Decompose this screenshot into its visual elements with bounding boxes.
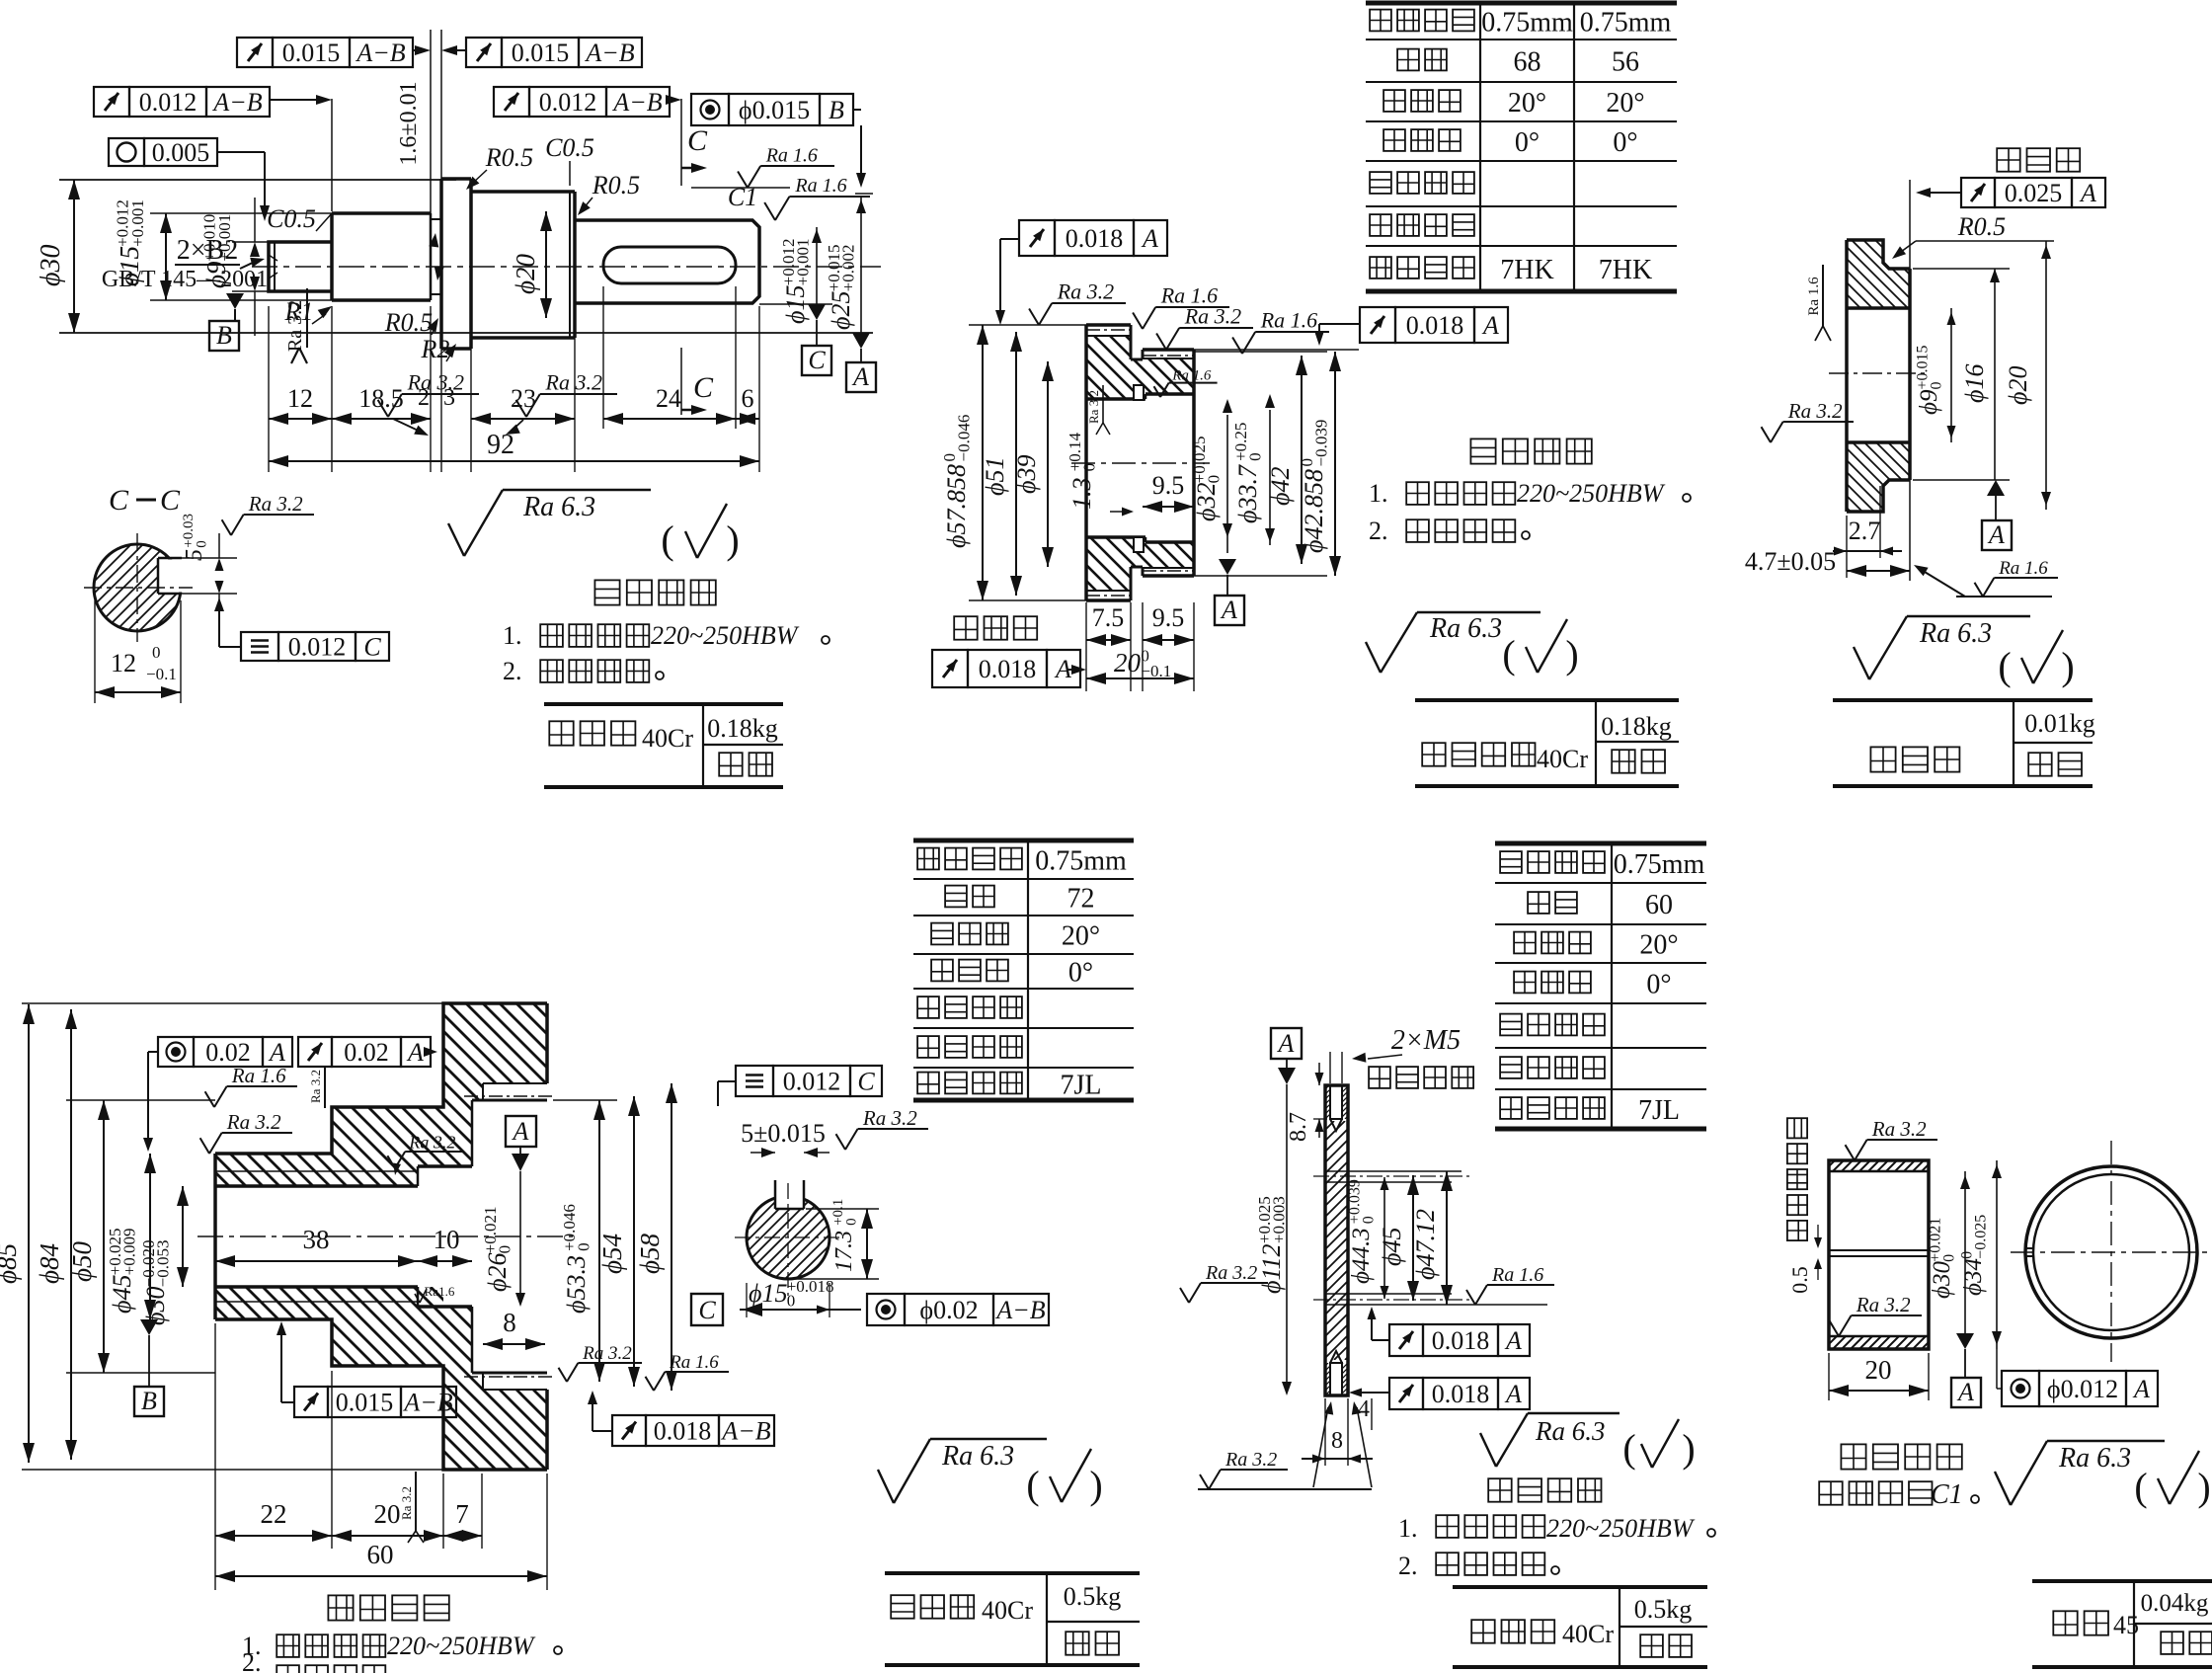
svg-text:7.5: 7.5 [1092,603,1125,632]
svg-text:0.015: 0.015 [336,1389,394,1417]
svg-text:0.18kg: 0.18kg [1601,712,1672,741]
svg-text:Ra 3.2: Ra 3.2 [1787,399,1843,423]
svg-text:A−B: A−B [584,39,634,67]
svg-text:0: 0 [575,1242,593,1251]
svg-text:ϕ53.3: ϕ53.3 [562,1255,591,1314]
svg-text:C0.5: C0.5 [267,204,316,233]
svg-text:ϕ51: ϕ51 [981,457,1009,496]
svg-text:Ra 3.2: Ra 3.2 [1871,1117,1927,1141]
svg-text:): ) [1565,632,1578,677]
svg-text:20°: 20° [1606,88,1644,119]
svg-text:1.6±0.01: 1.6±0.01 [396,81,422,165]
svg-text:4.7±0.05: 4.7±0.05 [1745,547,1836,576]
svg-text:R0.5: R0.5 [485,143,533,172]
svg-text:C: C [687,124,708,157]
svg-text:7HK: 7HK [1500,255,1553,285]
svg-text:Ra 6.3: Ra 6.3 [1429,613,1502,644]
svg-text:12: 12 [287,384,313,413]
svg-text:5: 5 [182,549,207,561]
svg-text:0.75mm: 0.75mm [1481,8,1573,39]
svg-text:0.75mm: 0.75mm [1614,849,1705,880]
svg-text:23: 23 [511,384,536,413]
svg-text:Ra 1.6: Ra 1.6 [1260,308,1317,333]
svg-text:R2: R2 [421,335,450,363]
svg-text:): ) [726,518,739,562]
svg-text:C: C [808,346,826,374]
svg-text:0: 0 [1205,475,1224,484]
svg-text:A−B: A−B [402,1389,452,1417]
svg-text:0.18kg: 0.18kg [707,714,778,743]
svg-text:40Cr: 40Cr [642,724,693,753]
svg-text:ϕ0.015: ϕ0.015 [739,96,810,124]
svg-text:(: ( [1622,1426,1635,1471]
svg-text:A: A [1956,1378,1974,1406]
svg-text:0.012: 0.012 [288,633,347,662]
svg-text:+0.009: +0.009 [120,1228,139,1275]
svg-text:8.7: 8.7 [1286,1112,1311,1142]
svg-text:ϕ45: ϕ45 [108,1275,136,1314]
svg-text:C: C [109,484,129,517]
svg-text:C: C [698,1296,716,1324]
svg-text:Ra 6.3: Ra 6.3 [1919,618,1992,649]
svg-text:Ra 1.6: Ra 1.6 [1998,558,2048,579]
svg-text:): ) [1089,1463,1102,1507]
svg-text:0.02: 0.02 [344,1038,389,1067]
svg-text:0.04kg: 0.04kg [2141,1590,2209,1617]
svg-text:220~250HBW: 220~250HBW [387,1632,536,1660]
svg-text:0: 0 [496,1245,514,1254]
svg-text:0.015: 0.015 [512,39,570,67]
svg-text:Ra 1.6: Ra 1.6 [1171,368,1212,384]
svg-text:220~250HBW: 220~250HBW [1517,479,1666,508]
svg-text:+0.001: +0.001 [128,199,147,247]
svg-text:0: 0 [1361,1216,1378,1224]
svg-text:ϕ15: ϕ15 [749,1279,787,1308]
svg-text:5±0.015: 5±0.015 [741,1119,826,1148]
svg-text:0.012: 0.012 [139,88,197,117]
svg-text:0.02: 0.02 [205,1038,251,1067]
svg-text:20: 20 [1865,1355,1892,1385]
svg-text:ϕ84: ϕ84 [35,1243,64,1284]
svg-text:A: A [512,1117,529,1146]
svg-text:20°: 20° [1508,88,1546,119]
svg-text:0.75mm: 0.75mm [1035,846,1127,877]
svg-text:Ra 3.2: Ra 3.2 [1224,1449,1277,1471]
svg-text:Ra1.6: Ra1.6 [425,1284,455,1299]
svg-text:0.015: 0.015 [282,39,341,67]
svg-text:Ra 1.6: Ra 1.6 [794,175,846,197]
svg-text:40Cr: 40Cr [982,1596,1033,1625]
svg-text:ϕ39: ϕ39 [1012,455,1041,494]
svg-text:Ra 3.2: Ra 3.2 [582,1343,632,1364]
svg-text:220~250HBW: 220~250HBW [1546,1514,1696,1543]
svg-text:0.75mm: 0.75mm [1580,8,1672,39]
svg-text:7HK: 7HK [1599,255,1652,285]
svg-text:Ra 3.2: Ra 3.2 [284,300,306,352]
svg-text:0.005: 0.005 [152,138,210,167]
svg-text:C: C [693,371,714,404]
svg-text:C0.5: C0.5 [545,133,594,162]
svg-text:0°: 0° [1613,127,1637,158]
svg-text:1.3: 1.3 [1067,478,1096,511]
svg-text:2.7: 2.7 [1849,517,1881,545]
svg-text:Ra 3.2: Ra 3.2 [1086,390,1101,424]
svg-text:0: 0 [1941,1254,1958,1262]
svg-text:2.: 2. [503,657,522,685]
svg-text:−0.025: −0.025 [1973,1215,1990,1259]
svg-text:68: 68 [1514,47,1541,78]
svg-text:ϕ30: ϕ30 [36,245,66,287]
svg-text:0: 0 [1929,382,1945,390]
svg-text:0.018: 0.018 [1066,224,1124,253]
svg-text:56: 56 [1612,47,1639,78]
svg-text:ϕ112: ϕ112 [1257,1243,1286,1294]
svg-text:+0.001: +0.001 [794,238,813,285]
svg-text:B: B [216,321,232,350]
svg-text:0.5: 0.5 [1787,1266,1812,1294]
svg-text:Ra 3.2: Ra 3.2 [1856,1293,1911,1316]
svg-text:9.5: 9.5 [1152,471,1185,500]
svg-text:C: C [160,484,181,517]
svg-text:0: 0 [843,1218,859,1226]
svg-text:0.012: 0.012 [783,1068,841,1096]
svg-text:A: A [1277,1029,1295,1058]
svg-text:A: A [1504,1380,1522,1408]
svg-text:ϕ57.858: ϕ57.858 [942,464,971,548]
svg-text:A: A [2132,1375,2150,1403]
svg-text:Ra 3.2: Ra 3.2 [862,1106,917,1130]
svg-text:Ra 1.6: Ra 1.6 [765,145,818,167]
svg-text:0.5kg: 0.5kg [1634,1595,1693,1624]
svg-text:45: 45 [2113,1611,2139,1639]
svg-text:Ra 6.3: Ra 6.3 [522,492,595,522]
svg-text:ϕ45: ϕ45 [1378,1228,1406,1266]
svg-text:−0.046: −0.046 [955,415,974,462]
svg-text:0.018: 0.018 [1406,311,1464,340]
svg-text:(: ( [1026,1463,1039,1507]
svg-text:ϕ15: ϕ15 [781,285,810,324]
svg-text:Ra 3.2: Ra 3.2 [308,1070,323,1103]
svg-text:ϕ85: ϕ85 [0,1243,22,1284]
svg-text:A: A [1987,520,2005,549]
svg-text:20: 20 [374,1499,401,1529]
svg-text:40Cr: 40Cr [1537,745,1588,773]
svg-text:7JL: 7JL [1638,1095,1680,1126]
svg-text:9.5: 9.5 [1152,603,1185,632]
svg-text:Ra 3.2: Ra 3.2 [248,492,303,516]
svg-text:2.: 2. [242,1648,262,1673]
svg-text:ϕ25: ϕ25 [827,291,855,330]
svg-text:Ra 3.2: Ra 3.2 [399,1486,414,1520]
svg-text:Ra 3.2: Ra 3.2 [226,1110,281,1134]
svg-text:+0.003: +0.003 [1270,1196,1289,1243]
svg-text:ϕ16: ϕ16 [1960,364,1989,403]
svg-text:20: 20 [1114,648,1142,677]
svg-text:ϕ34: ϕ34 [1960,1258,1987,1296]
svg-text:Ra 6.3: Ra 6.3 [941,1441,1014,1472]
svg-text:Ra 1.6: Ra 1.6 [669,1352,719,1373]
svg-text:220~250HBW: 220~250HBW [651,621,800,650]
svg-text:0.018: 0.018 [654,1417,712,1446]
svg-text:1.: 1. [1398,1514,1418,1543]
svg-text:ϕ44.3: ϕ44.3 [1348,1228,1375,1284]
svg-text:−0.1: −0.1 [1141,662,1171,680]
svg-text:0: 0 [1246,452,1265,461]
svg-text:): ) [1682,1426,1695,1471]
svg-text:A: A [2079,179,2096,207]
svg-text:A−B: A−B [720,1417,770,1446]
svg-text:2×M5: 2×M5 [1391,1025,1461,1056]
svg-text:Ra 1.6: Ra 1.6 [231,1064,286,1087]
svg-text:0: 0 [787,1292,796,1311]
svg-text:24: 24 [656,384,681,413]
svg-text:0°: 0° [1515,127,1540,158]
svg-text:ϕ47.12: ϕ47.12 [1411,1209,1440,1280]
svg-text:(: ( [661,518,673,562]
svg-text:Ra 1.6: Ra 1.6 [1806,277,1822,316]
svg-text:17.3: 17.3 [831,1231,857,1272]
svg-text:ϕ50: ϕ50 [67,1241,97,1282]
svg-text:−0.053: −0.053 [154,1239,173,1287]
svg-text:): ) [2061,644,2074,688]
svg-text:0.018: 0.018 [1432,1380,1490,1408]
svg-text:Ra 6.3: Ra 6.3 [2058,1443,2131,1474]
svg-text:6: 6 [742,384,754,413]
svg-text:20°: 20° [1639,930,1678,961]
svg-text:Ra 3.2: Ra 3.2 [408,1133,455,1153]
svg-text:A: A [1504,1326,1522,1355]
svg-text:ϕ0.012: ϕ0.012 [2047,1375,2118,1403]
svg-text:2.: 2. [1398,1552,1418,1580]
svg-text:R0.5: R0.5 [384,308,433,337]
svg-text:ϕ30: ϕ30 [1929,1261,1955,1299]
svg-text:2.: 2. [1369,517,1388,545]
svg-text:A−B: A−B [355,39,405,67]
svg-text:1.: 1. [1369,479,1388,508]
svg-text:A−B: A−B [994,1296,1045,1324]
svg-text:Ra 3.2: Ra 3.2 [1184,304,1241,329]
svg-text:(: ( [1998,644,2011,688]
svg-text:0°: 0° [1068,958,1093,989]
svg-text:8: 8 [503,1308,516,1337]
svg-text:A: A [406,1038,424,1067]
svg-text:C1: C1 [728,183,757,211]
svg-text:0.5kg: 0.5kg [1064,1582,1122,1611]
svg-text:ϕ32: ϕ32 [1192,483,1221,521]
svg-text:(: ( [2134,1465,2147,1509]
svg-text:40Cr: 40Cr [1562,1620,1614,1648]
svg-text:Ra 3.2: Ra 3.2 [1057,279,1114,304]
svg-text:A: A [1481,311,1499,340]
svg-text:A: A [1220,596,1237,624]
svg-text:−0.039: −0.039 [1312,420,1331,467]
svg-text:2: 2 [418,385,430,411]
svg-text:ϕ42.858: ϕ42.858 [1300,469,1328,553]
svg-text:R0.5: R0.5 [1957,212,2006,241]
svg-text:72: 72 [1067,884,1095,915]
svg-text:A: A [268,1038,285,1067]
svg-text:C1: C1 [1931,1479,1963,1510]
svg-text:GB/T 145—2001: GB/T 145—2001 [102,267,268,292]
svg-text:7JL: 7JL [1061,1071,1102,1101]
svg-text:38: 38 [303,1225,330,1254]
svg-text:0: 0 [194,540,209,548]
svg-text:ϕ20: ϕ20 [2004,366,2032,405]
svg-text:B: B [829,96,844,124]
svg-text:10: 10 [434,1225,460,1254]
svg-text:R0.5: R0.5 [592,171,640,199]
svg-text:0: 0 [152,643,161,662]
svg-text:ϕ58: ϕ58 [635,1234,665,1274]
svg-text:ϕ54: ϕ54 [597,1234,627,1274]
svg-text:12: 12 [111,649,136,677]
svg-text:C: C [857,1068,875,1096]
svg-text:B: B [141,1387,157,1415]
svg-text:ϕ20: ϕ20 [511,254,540,294]
svg-text:60: 60 [367,1540,394,1569]
svg-text:+0.002: +0.002 [839,244,858,291]
svg-text:A: A [851,362,869,391]
svg-text:60: 60 [1645,890,1673,920]
svg-text:8: 8 [1331,1428,1343,1454]
svg-text:ϕ33.7: ϕ33.7 [1233,464,1262,523]
svg-text:ϕ0.02: ϕ0.02 [919,1296,978,1324]
svg-text:Ra 1.6: Ra 1.6 [1491,1264,1543,1286]
svg-text:0.018: 0.018 [979,655,1037,683]
svg-text:7: 7 [455,1499,469,1529]
svg-text:0.018: 0.018 [1432,1326,1490,1355]
svg-text:A−B: A−B [211,88,262,117]
svg-text:0°: 0° [1646,970,1671,1000]
svg-text:18.5: 18.5 [358,384,404,413]
svg-text:22: 22 [261,1499,287,1529]
svg-text:Ra 3.2: Ra 3.2 [1205,1262,1257,1284]
svg-text:0.025: 0.025 [2005,179,2063,207]
svg-text:1.: 1. [503,621,522,650]
svg-text:A: A [1141,224,1158,253]
svg-text:): ) [2197,1465,2210,1509]
svg-text:(: ( [1502,632,1515,677]
svg-text:Ra 3.2: Ra 3.2 [407,369,464,394]
svg-text:0.012: 0.012 [539,88,597,117]
svg-text:0: 0 [1080,463,1099,472]
svg-text:Ra 3.2: Ra 3.2 [545,369,602,394]
svg-text:C: C [363,633,381,662]
svg-text:92: 92 [487,430,514,460]
svg-text:0.01kg: 0.01kg [2024,709,2095,738]
svg-text:−0.1: −0.1 [146,665,177,683]
svg-text:3: 3 [443,385,455,411]
svg-text:A−B: A−B [611,88,662,117]
svg-text:20°: 20° [1062,921,1100,952]
svg-text:Ra 6.3: Ra 6.3 [1535,1416,1606,1446]
svg-text:ϕ9: ϕ9 [1916,389,1942,415]
svg-text:2×B2: 2×B2 [177,235,238,266]
svg-text:ϕ26: ϕ26 [483,1253,512,1292]
